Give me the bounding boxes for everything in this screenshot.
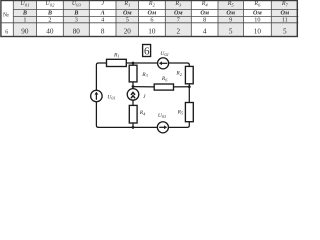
svg-text:R7: R7 [281,1,289,7]
svg-text:R1: R1 [123,1,130,7]
svg-text:R4: R4 [201,1,209,7]
svg-text:В: В [22,9,27,16]
svg-text:№: № [3,11,9,18]
svg-text:J: J [101,1,104,7]
svg-text:U03: U03 [158,113,166,119]
wire J to R4 [132,100,134,105]
voltage source U03 [157,122,168,133]
svg-text:А: А [100,9,105,16]
circuit schematic [91,45,194,133]
wire U03 to bottom-left corner up to U01 [96,102,157,128]
svg-text:8: 8 [203,16,206,23]
svg-text:R4: R4 [139,110,145,116]
svg-text:R2: R2 [175,71,181,77]
wire R5 to bottom-right corner to U03 [168,122,189,128]
svg-text:11: 11 [282,16,288,23]
svg-text:R1: R1 [113,52,119,58]
grid lines [1,1,299,37]
voltage source U02 [158,58,169,69]
svg-text:В: В [73,9,78,16]
svg-text:Ом: Ом [174,9,183,16]
wire R4 to bottom node [132,123,134,127]
svg-text:10: 10 [254,27,262,35]
svg-text:R6: R6 [253,1,261,7]
svg-text:В: В [47,9,52,16]
svg-text:9: 9 [229,16,232,23]
shaded columns [13,1,298,37]
resistor R1 [107,59,127,66]
svg-text:2: 2 [48,16,51,23]
resistor R2 [185,66,193,83]
svg-text:4: 4 [101,16,104,23]
svg-text:U01: U01 [20,1,29,7]
svg-text:Ом: Ом [280,9,289,16]
node B middle [132,85,135,88]
resistor R6 [154,84,173,90]
svg-text:U03: U03 [72,1,82,7]
svg-text:6: 6 [150,16,153,23]
svg-text:7: 7 [177,16,180,23]
svg-text:6: 6 [144,45,150,57]
wire R6 to right node [174,86,190,88]
svg-text:Ом: Ом [200,9,209,16]
svg-text:20: 20 [124,27,132,35]
svg-text:6: 6 [5,29,8,35]
node C right [188,85,191,88]
svg-text:8: 8 [101,27,105,35]
svg-text:U02: U02 [45,1,55,7]
resistor R5 [185,103,193,122]
svg-text:Ом: Ом [226,9,235,16]
svg-text:10: 10 [148,27,156,35]
header row 1 [20,1,288,7]
wire top-left corner to R1 [96,63,106,90]
variant number box 6 [143,45,151,58]
svg-text:U01: U01 [107,94,115,100]
wire R3 to middle node to J [132,82,134,89]
svg-text:80: 80 [73,27,81,35]
svg-text:1: 1 [23,16,26,23]
header row 3 numbers [23,16,287,23]
svg-text:R6: R6 [161,76,167,82]
svg-text:R5: R5 [177,110,183,116]
resistor R3 [129,65,137,82]
svg-text:4: 4 [203,27,207,35]
wire middle node to R6 [133,86,154,88]
svg-text:40: 40 [46,27,54,35]
svg-text:R2: R2 [148,1,156,7]
svg-text:U02: U02 [160,51,168,57]
outer border [1,1,297,37]
svg-text:3: 3 [75,16,78,23]
data table [1,1,299,37]
svg-text:90: 90 [21,27,29,35]
svg-text:R3: R3 [141,72,147,78]
svg-text:R3: R3 [174,1,182,7]
svg-text:Ом: Ом [148,9,157,16]
svg-text:10: 10 [254,16,260,23]
data row [5,27,287,35]
svg-text:5: 5 [229,27,233,35]
svg-text:R5: R5 [227,1,235,7]
resistor R4 [129,105,137,123]
node D bottom [132,126,135,129]
current source J [127,89,139,101]
svg-text:Ом: Ом [123,9,132,16]
header row 2 units [22,9,290,16]
wire R1 to U02 [126,62,157,64]
wire top node to R3 [132,63,134,65]
svg-text:5: 5 [126,16,129,23]
wire U02 to top-right corner down to R2 [169,63,190,66]
svg-text:Ом: Ом [253,9,262,16]
svg-text:2: 2 [177,27,181,35]
wire R2 to node then R5 [188,84,190,103]
voltage source U01 [91,90,103,102]
node A top [132,62,135,65]
svg-text:5: 5 [283,27,287,35]
